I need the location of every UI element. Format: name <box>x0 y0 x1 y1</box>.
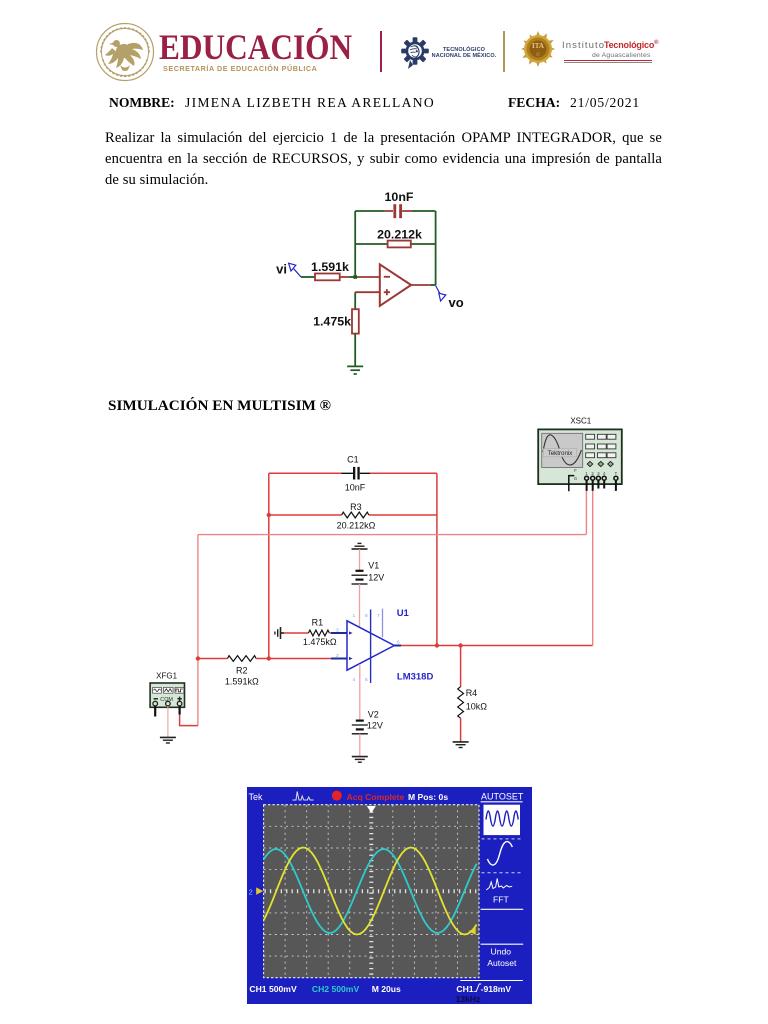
wire R feedback left <box>355 243 387 245</box>
node R4 junction <box>458 643 462 647</box>
trace CH1 yellow <box>264 848 477 935</box>
menu divider dashed 2 <box>482 872 523 874</box>
resistor R3 <box>342 512 369 518</box>
node feedback output junction <box>435 643 439 647</box>
pin line power left <box>370 610 372 684</box>
PARAGRAPH <box>105 128 662 190</box>
pin line power right <box>382 609 384 638</box>
label CH1 trigger level <box>456 984 511 994</box>
pin stub inverting <box>331 632 347 634</box>
ITA sun seal <box>521 31 555 67</box>
wire XFG COM to ground <box>167 706 169 737</box>
resistor 1.591k <box>315 274 340 281</box>
svg-text:20.212k: 20.212k <box>377 228 422 242</box>
marker channel position arrow <box>256 887 263 894</box>
wire input left vertical <box>197 535 199 726</box>
svg-text:C1: C1 <box>347 455 359 465</box>
node R3 left junction <box>267 513 271 517</box>
pin stub XFG minus <box>154 706 156 717</box>
maroon separator bar <box>380 31 382 72</box>
svg-text:12V: 12V <box>367 720 383 730</box>
menu divider solid 2 <box>481 943 524 945</box>
wire left vertical <box>354 211 356 277</box>
resistor R4 <box>458 687 464 719</box>
svg-text:FFT: FFT <box>493 895 509 905</box>
svg-text:CH1: CH1 <box>456 984 473 994</box>
ground R4 <box>453 742 469 748</box>
battery V2 <box>352 721 368 734</box>
ground V1 top <box>352 543 368 549</box>
wire scope CH1 horizontal <box>198 534 587 536</box>
wire non-inverting input <box>355 291 380 293</box>
svg-text:1.591kΩ: 1.591kΩ <box>225 677 259 687</box>
wire R1 left <box>284 632 308 634</box>
wire feedback left vertical <box>268 473 270 658</box>
svg-text:20.212kΩ: 20.212kΩ <box>337 520 376 530</box>
node inverting junction <box>353 275 357 279</box>
ground <box>347 366 363 374</box>
wire R3 right <box>369 514 437 516</box>
svg-text:XSC1: XSC1 <box>570 416 591 425</box>
svg-text:4: 4 <box>353 677 356 683</box>
ground R1 <box>275 627 284 639</box>
battery V1 <box>352 571 368 584</box>
HEADING2 <box>108 397 331 415</box>
pin stub output <box>394 645 401 647</box>
EDUCACION wordmark <box>159 26 352 68</box>
wire scope CH2 vertical <box>592 491 594 646</box>
pin stub scope terminals <box>587 481 616 491</box>
svg-text:8: 8 <box>365 613 368 619</box>
readout underline <box>460 980 523 982</box>
pin numbers <box>336 613 400 683</box>
oscilloscope XSC1 <box>538 416 622 484</box>
menu divider dashed 1 <box>482 838 523 840</box>
svg-text:10nF: 10nF <box>345 483 366 493</box>
svg-text:Tek: Tek <box>249 792 264 802</box>
trace CH2 cyan <box>264 849 477 933</box>
svg-text:G: G <box>574 476 577 481</box>
svg-text:1.475k: 1.475k <box>313 315 351 329</box>
center graticule ticks <box>265 806 479 977</box>
wire XSC ground internal <box>569 476 575 492</box>
svg-text:1: 1 <box>353 613 356 619</box>
svg-text:1.475kΩ: 1.475kΩ <box>303 637 337 647</box>
icon acquisition waveform <box>293 792 314 801</box>
svg-text:M 20us: M 20us <box>372 984 401 994</box>
svg-text:CH2 500mV: CH2 500mV <box>312 984 360 994</box>
svg-text:V1: V1 <box>368 561 379 571</box>
menu underline <box>481 801 523 803</box>
resistor R2 <box>228 656 257 662</box>
svg-text:10kΩ: 10kΩ <box>466 702 488 712</box>
wire V2 from opamp <box>359 664 361 720</box>
marker trigger level arrow <box>469 928 476 935</box>
SEP eagle seal <box>94 20 156 84</box>
ITA wordmark <box>562 40 605 51</box>
function generator XFG1 <box>150 672 184 708</box>
op-amp U1 <box>347 621 394 670</box>
pin stub non-inverting <box>331 658 347 660</box>
svg-text:12V: 12V <box>368 572 384 582</box>
svg-text:Autoset: Autoset <box>487 958 517 968</box>
menu icon single sine <box>487 842 512 865</box>
wire feedback top left <box>355 210 385 212</box>
wire inverting input <box>340 276 380 278</box>
SCOPE <box>247 787 532 1005</box>
svg-text:2: 2 <box>336 653 339 659</box>
svg-text:1.591k: 1.591k <box>311 260 349 274</box>
svg-text:V2: V2 <box>368 710 379 720</box>
scope screen <box>264 805 479 978</box>
wire V2 to ground <box>359 734 361 757</box>
resistor 1.475k <box>352 309 359 333</box>
svg-text:CH1 500mV: CH1 500mV <box>249 984 297 994</box>
MULTISIM <box>115 410 675 788</box>
svg-text:2: 2 <box>249 888 253 897</box>
svg-text:☆: ☆ <box>535 51 540 58</box>
svg-text:Acq Complete: Acq Complete <box>347 792 405 802</box>
svg-text:AUTOSET: AUTOSET <box>481 792 524 802</box>
wire R2 to opamp <box>256 658 331 660</box>
marker trigger position top <box>367 806 376 813</box>
op-amp U <box>380 264 411 306</box>
wire output <box>401 645 593 647</box>
wire output <box>411 284 430 286</box>
svg-text:XFG1: XFG1 <box>156 672 177 681</box>
menu icon FFT spectrum <box>486 879 512 891</box>
wire C1 right <box>370 472 437 474</box>
menu divider solid 1 <box>481 908 524 910</box>
wire to ground <box>354 334 356 367</box>
svg-text:M Pos: 0s: M Pos: 0s <box>408 792 448 802</box>
wire feedback right vertical <box>436 473 438 645</box>
svg-text:T: T <box>615 471 618 476</box>
node inverting wire junction <box>267 656 271 660</box>
wire V1 to opamp <box>359 584 361 629</box>
svg-text:ITA: ITA <box>532 42 544 50</box>
svg-text:3: 3 <box>336 628 339 634</box>
wire output to node <box>430 284 436 286</box>
svg-text:F: F <box>574 468 577 473</box>
resistor R1 <box>308 630 329 636</box>
scope panel background <box>247 787 532 1004</box>
svg-text:LM318D: LM318D <box>397 672 434 683</box>
node R2 left junction <box>196 656 200 660</box>
output pin arrow vo <box>436 286 446 302</box>
svg-text:vo: vo <box>449 295 464 310</box>
icon record dot <box>332 791 342 801</box>
wire R1 to opamp <box>329 632 331 634</box>
wire R2 left <box>198 658 228 660</box>
svg-text:U1: U1 <box>397 608 410 619</box>
menu button multi-sine <box>484 805 521 835</box>
svg-text:13kHz: 13kHz <box>456 994 481 1004</box>
ground XFG1 <box>160 737 176 743</box>
svg-text:5: 5 <box>365 677 368 683</box>
capacitor 10nF <box>385 204 412 218</box>
svg-text:10nF: 10nF <box>385 190 414 204</box>
capacitor C1 <box>341 467 370 480</box>
svg-text:-918mV: -918mV <box>481 984 512 994</box>
wire input lead <box>301 276 315 278</box>
wire to resistor 1.475k <box>354 292 356 309</box>
wire feedback top right <box>412 210 436 212</box>
pin marks input <box>349 631 353 660</box>
wire V1 to ground <box>359 549 361 570</box>
wire XFG1 to node <box>180 714 198 726</box>
wire R4 top <box>460 646 462 687</box>
svg-text:R2: R2 <box>236 665 248 675</box>
TecNM gear logo <box>400 32 430 70</box>
input pin arrow vi <box>289 263 301 277</box>
pin stub XFG plus <box>179 706 181 715</box>
svg-text:Undo: Undo <box>491 946 512 956</box>
resistor 20.212k <box>388 241 411 248</box>
NOMBRE LINE <box>0 95 768 113</box>
svg-text:R1: R1 <box>312 617 324 627</box>
wire C1 left <box>269 472 341 474</box>
svg-text:R3: R3 <box>350 502 362 512</box>
svg-text:7: 7 <box>377 613 380 619</box>
SCHEMATIC1 <box>270 188 470 384</box>
wire scope CH1 vertical <box>585 491 587 535</box>
wire R feedback right <box>411 243 436 245</box>
ground V2 <box>352 757 368 763</box>
wire R3 left <box>269 514 342 516</box>
svg-text:Tektronix: Tektronix <box>548 450 574 457</box>
wire R4 bottom <box>460 718 462 742</box>
gold separator bar <box>503 31 505 72</box>
svg-text:R4: R4 <box>466 688 478 698</box>
screen dashed border <box>264 805 479 978</box>
svg-text:vi: vi <box>276 262 287 277</box>
wire right vertical <box>435 211 437 285</box>
